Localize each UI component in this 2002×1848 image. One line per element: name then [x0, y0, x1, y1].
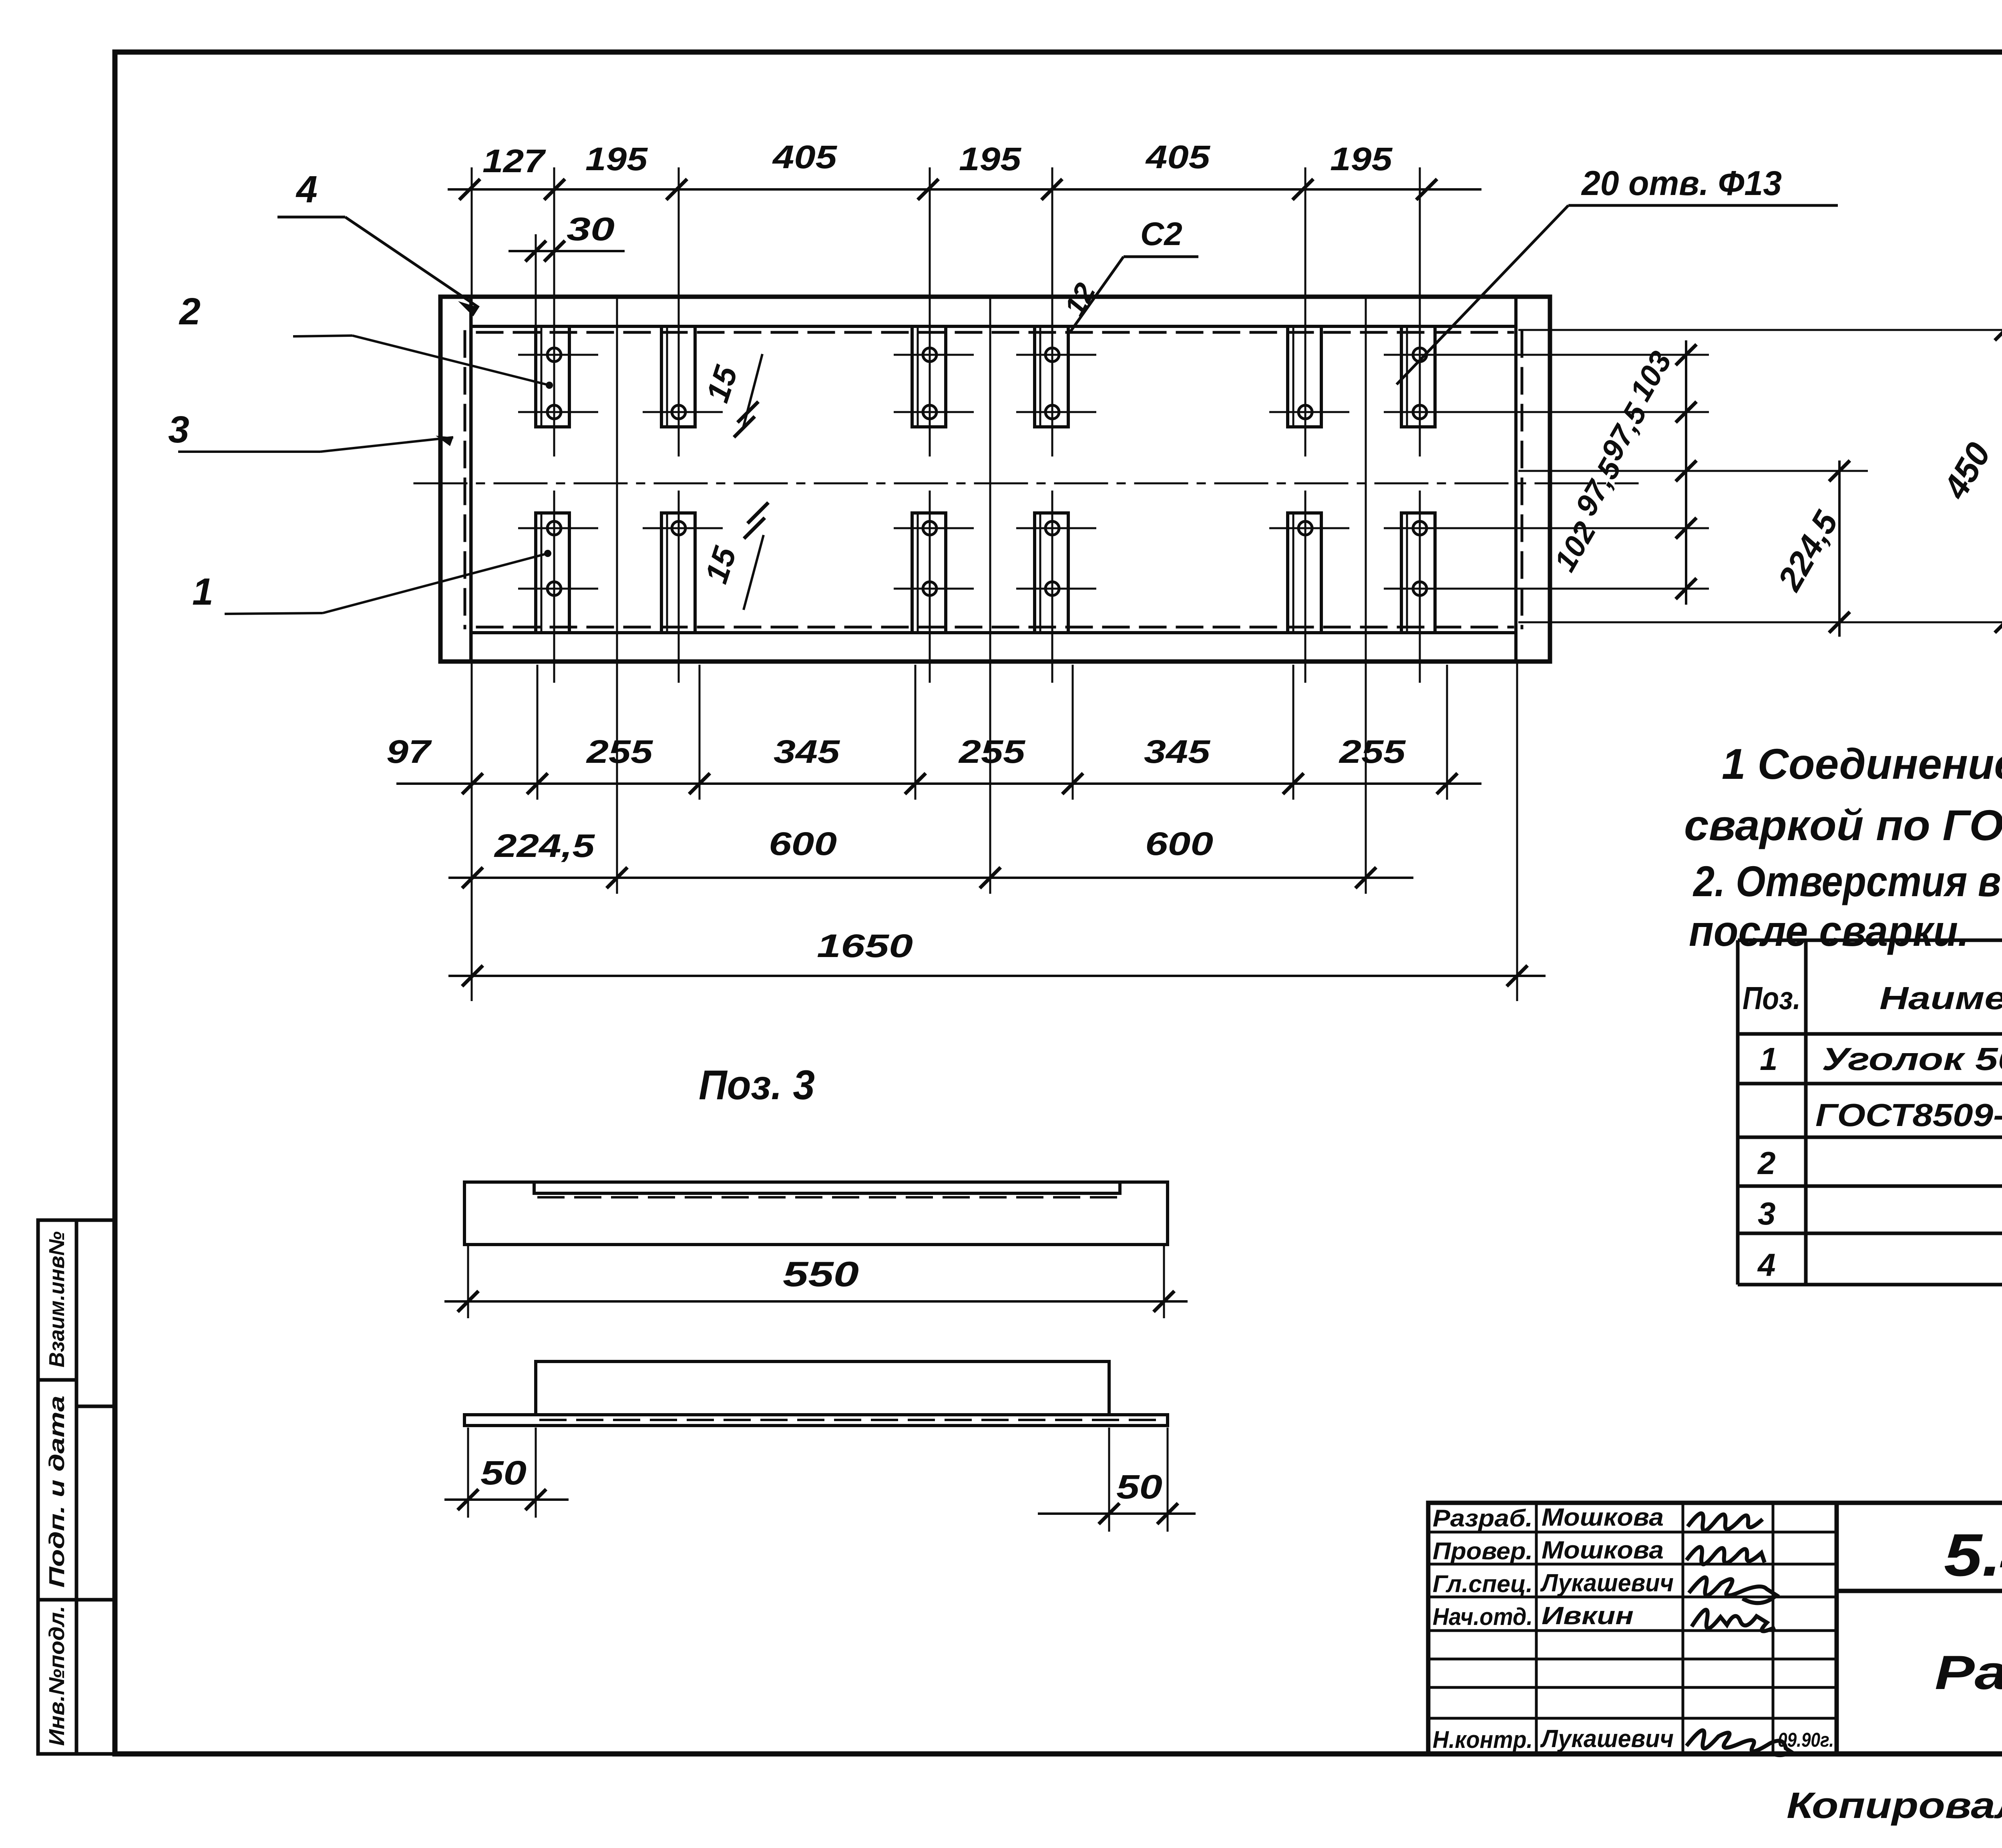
- svg-text:Мошкова: Мошкова: [1542, 1504, 1664, 1531]
- bottom tab B4 poz.1: [1035, 513, 1068, 633]
- svg-text:Подп. и дата: Подп. и дата: [45, 1396, 69, 1588]
- hole B1 upper: [547, 521, 561, 535]
- bottom tab B1 poz.1: [536, 513, 569, 633]
- top dimension line 127/195/405/195/405/195: [448, 188, 1481, 191]
- poz.3 detail front view: [464, 1182, 1168, 1245]
- dim 50 right: [1109, 1428, 1168, 1532]
- left margin stamp strip: [38, 1220, 115, 1754]
- plan view inner edge right end angle poz.3: [1514, 297, 1518, 662]
- hole B2 upper: [672, 521, 685, 535]
- dim 50 left: [468, 1428, 536, 1518]
- bottom dimension row 97/255/345/255/345/255: [396, 782, 1481, 785]
- svg-text:Взаим.инв№: Взаим.инв№: [45, 1231, 69, 1367]
- hole T4 upper: [1045, 348, 1059, 362]
- svg-text:Н.контр.: Н.контр.: [1433, 1726, 1533, 1753]
- title block signature grid: [1428, 1503, 1837, 1754]
- svg-text:Наименование: Наименование: [1879, 980, 2002, 1016]
- svg-text:50: 50: [1116, 1468, 1162, 1506]
- svg-text:Гл.спец.: Гл.спец.: [1433, 1570, 1533, 1597]
- svg-text:30: 30: [567, 211, 615, 247]
- hole T2 lower: [672, 405, 685, 419]
- svg-text:сваркой по ГОСТ5264-80.: сваркой по ГОСТ5264-80.: [1684, 801, 2002, 849]
- svg-text:195: 195: [1330, 141, 1393, 177]
- hole B3 lower: [923, 582, 937, 595]
- top tab T3 poz.2: [912, 326, 946, 427]
- svg-text:ГОСТ8509-86, L=142: ГОСТ8509-86, L=142: [1815, 1097, 2002, 1133]
- svg-text:345: 345: [1144, 734, 1211, 770]
- hole T3 upper: [923, 348, 937, 362]
- svg-text:2. Отверстия в деталях поз.1 и: 2. Отверстия в деталях поз.1 и 2 сверлит…: [1692, 857, 2002, 905]
- hidden dashed edge left angle: [464, 332, 466, 628]
- signature squiggles: [1686, 1513, 1792, 1755]
- dim 15 bottom: [744, 535, 764, 610]
- svg-text:Копировал: Копировал: [1787, 1785, 2002, 1826]
- svg-text:4: 4: [295, 168, 318, 211]
- bottom tab B5 poz.1: [1288, 513, 1321, 633]
- svg-text:Мошкова: Мошкова: [1542, 1536, 1664, 1564]
- hidden dashed edge right angle: [1521, 332, 1524, 628]
- tabs: six columns, top row poz.2, bottom row poz.1: [536, 326, 1435, 633]
- dimension row 224,5/600/600: [448, 877, 1413, 879]
- hole B3 upper: [923, 521, 937, 535]
- svg-text:255: 255: [958, 734, 1026, 770]
- vertical dim stack 103/97,5/97,5/102: [1685, 340, 1687, 605]
- tab hole-column center lines: [554, 167, 1420, 683]
- projection extension lines: [472, 167, 1517, 1001]
- svg-text:1 Соединение уголков выполни: 1 Соединение уголков выполнить: [1722, 740, 2002, 788]
- svg-text:Лукашевич: Лукашевич: [1540, 1569, 1674, 1597]
- svg-text:345: 345: [774, 734, 840, 770]
- svg-text:Рама Р9: Рама Р9: [1935, 1646, 2002, 1699]
- hole T6 lower: [1413, 405, 1427, 419]
- plan view inner edge top long angle poz.4: [471, 325, 1516, 328]
- svg-text:1650: 1650: [817, 928, 913, 964]
- hole B4 upper: [1045, 521, 1059, 535]
- svg-text:20 отв. Ф13: 20 отв. Ф13: [1581, 164, 1782, 203]
- bottom tab B2 poz.1: [661, 513, 695, 633]
- hole T3 lower: [923, 405, 937, 419]
- dim 30: [509, 250, 625, 252]
- svg-text:97: 97: [386, 734, 432, 770]
- dim 15 top: [743, 354, 762, 429]
- hole B5 upper: [1298, 521, 1312, 535]
- hole T1 lower: [547, 405, 561, 419]
- svg-text:Лукашевич: Лукашевич: [1540, 1725, 1674, 1753]
- svg-text:Нач.отд.: Нач.отд.: [1433, 1603, 1533, 1630]
- svg-text:195: 195: [585, 141, 648, 177]
- hole B4 lower: [1045, 582, 1059, 595]
- svg-text:127: 127: [482, 143, 546, 179]
- svg-text:Разраб.: Разраб.: [1433, 1505, 1533, 1532]
- svg-text:600: 600: [1145, 826, 1213, 862]
- top tab T2 poz.2: [661, 326, 695, 427]
- svg-text:255: 255: [586, 734, 653, 770]
- specification table: [1738, 940, 2002, 1285]
- svg-text:5.407-126.1-25: 5.407-126.1-25: [1944, 1521, 2002, 1589]
- svg-text:50: 50: [480, 1454, 527, 1492]
- svg-text:Инв.№подл.: Инв.№подл.: [45, 1606, 69, 1746]
- svg-text:Уголок 50×50×5: Уголок 50×50×5: [1822, 1041, 2002, 1077]
- svg-text:Провер.: Провер.: [1433, 1538, 1533, 1564]
- hole T6 upper: [1413, 348, 1427, 362]
- svg-text:550: 550: [783, 1254, 859, 1294]
- svg-text:1: 1: [192, 571, 213, 613]
- svg-text:600: 600: [769, 826, 837, 862]
- svg-text:С2: С2: [1140, 216, 1182, 252]
- svg-text:2: 2: [179, 290, 201, 333]
- plan view inner edge bottom long angle poz.4: [471, 631, 1516, 634]
- longitudinal axis center line: [414, 483, 1638, 485]
- holes d13: 20 holes: [547, 348, 1427, 595]
- plan view outer contour of frame P9: [440, 297, 1550, 662]
- title block outline: [1428, 1503, 2002, 1754]
- bottom tab B3 poz.1: [912, 513, 946, 633]
- svg-text:3: 3: [1758, 1196, 1776, 1231]
- svg-text:Ивкин: Ивкин: [1542, 1602, 1634, 1630]
- dim 550: [468, 1246, 1164, 1318]
- svg-text:224,5: 224,5: [494, 828, 595, 864]
- bottom tab B6 poz.1: [1401, 513, 1435, 633]
- plan view inner edge left end angle poz.3: [469, 297, 472, 662]
- hole center cross lines: [518, 355, 1464, 589]
- top tab T1 poz.2: [536, 326, 569, 427]
- dim 224,5 vertical: [1838, 460, 1841, 637]
- hidden dashed edge bottom angle: [477, 626, 1513, 629]
- top tab T4 poz.2: [1035, 326, 1068, 427]
- right side projection lines: [1385, 330, 2002, 622]
- svg-text:3: 3: [168, 408, 189, 451]
- svg-text:255: 255: [1339, 734, 1406, 770]
- hole T5 lower: [1298, 405, 1312, 419]
- dimension 1650: [448, 975, 1546, 977]
- svg-text:4: 4: [1757, 1247, 1776, 1283]
- svg-text:405: 405: [1145, 139, 1211, 175]
- svg-text:2: 2: [1757, 1145, 1776, 1181]
- hole T1 upper: [547, 348, 561, 362]
- svg-text:после сварки.: после сварки.: [1689, 907, 1969, 955]
- top tab T6 poz.2: [1401, 326, 1435, 427]
- hole B6 upper: [1413, 521, 1427, 535]
- hole B1 lower: [547, 582, 561, 595]
- svg-text:Поз. 3: Поз. 3: [699, 1062, 815, 1108]
- poz.3 detail top view: [464, 1361, 1168, 1426]
- svg-text:Поз.: Поз.: [1743, 980, 1801, 1016]
- top tab T5 poz.2: [1288, 326, 1321, 427]
- svg-text:1: 1: [1760, 1041, 1778, 1077]
- hidden dashed edge top angle: [477, 331, 1513, 334]
- svg-text:195: 195: [959, 141, 1022, 177]
- hole B6 lower: [1413, 582, 1427, 595]
- svg-text:405: 405: [772, 139, 838, 175]
- hole T4 lower: [1045, 405, 1059, 419]
